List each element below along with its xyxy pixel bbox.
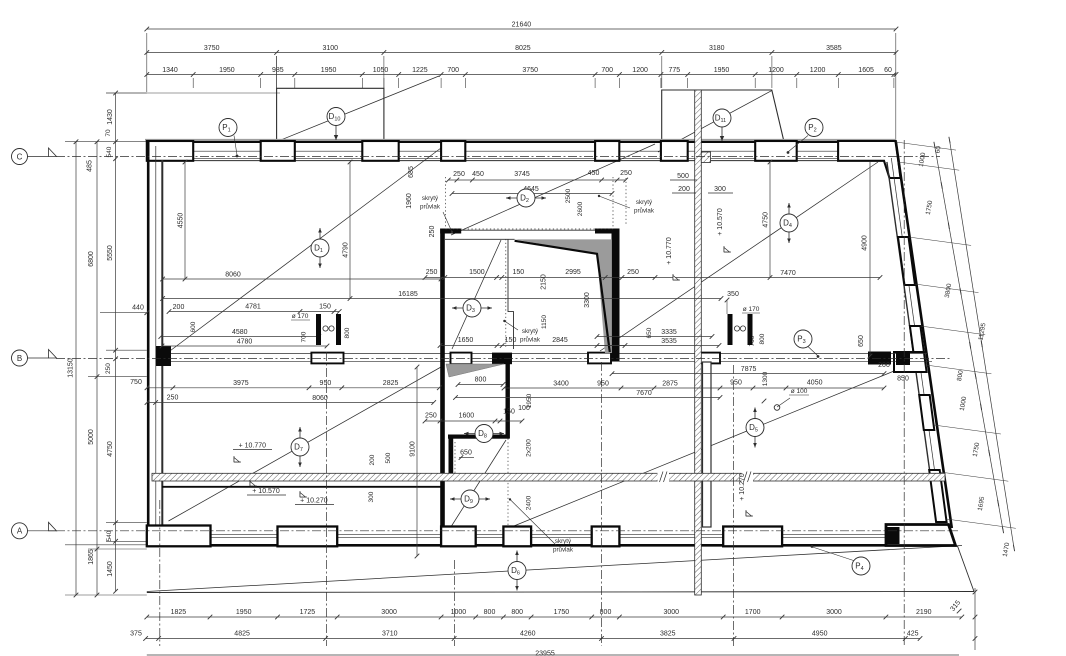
svg-text:5550: 5550 xyxy=(107,245,114,261)
svg-text:1950: 1950 xyxy=(714,67,730,74)
svg-text:skrytý: skrytý xyxy=(555,538,572,545)
svg-text:1150: 1150 xyxy=(541,315,548,329)
svg-text:500: 500 xyxy=(677,173,689,180)
svg-text:1200: 1200 xyxy=(810,67,826,74)
right wall B junction xyxy=(894,352,927,372)
right slant extension lines xyxy=(896,142,956,150)
svg-text:650: 650 xyxy=(646,327,653,338)
vertical dim 4790 xyxy=(349,162,351,299)
svg-text:60: 60 xyxy=(884,67,892,74)
axis B wall piers xyxy=(311,353,343,364)
dim row 250 1600 150 100 xyxy=(425,420,522,422)
dim 16185 xyxy=(163,298,721,300)
svg-text:průvlak: průvlak xyxy=(634,208,655,215)
wall right of strip xyxy=(703,362,712,527)
svg-text:700: 700 xyxy=(447,67,459,74)
diagonal room bottom-left D7 xyxy=(169,367,442,521)
svg-text:800: 800 xyxy=(511,609,523,616)
dim 4645 xyxy=(452,193,612,195)
stair shaft left wall xyxy=(440,229,445,528)
svg-text:375: 375 xyxy=(130,631,142,638)
bottom-right corner xyxy=(886,525,956,546)
beam line below hatch xyxy=(162,486,441,488)
svg-text:3000: 3000 xyxy=(381,609,397,616)
svg-text:4790: 4790 xyxy=(342,242,349,258)
axis B wall right junction xyxy=(896,353,910,366)
svg-text:1950: 1950 xyxy=(219,67,235,74)
dim 7470 xyxy=(622,277,880,279)
lower room left wall segment xyxy=(449,439,454,474)
right wall slanted inner xyxy=(887,162,937,520)
dim 250 8060 lower xyxy=(147,402,434,404)
svg-text:16185: 16185 xyxy=(398,291,418,298)
shaft dim row 250 1500 150 2995 250 xyxy=(425,277,655,279)
extension lines top xyxy=(146,33,148,92)
diagonal room bottom-right D5 xyxy=(509,358,926,528)
svg-text:+ 10.270: + 10.270 xyxy=(300,498,328,505)
svg-text:250: 250 xyxy=(627,269,639,276)
top wall grey cap xyxy=(145,139,896,141)
svg-text:+ 10.570: + 10.570 xyxy=(252,488,280,495)
svg-text:1650: 1650 xyxy=(458,337,474,344)
svg-text:775: 775 xyxy=(668,67,680,74)
top wall xyxy=(147,141,896,143)
svg-text:+ 10.270: + 10.270 xyxy=(739,473,746,501)
svg-text:700: 700 xyxy=(601,67,613,74)
diagonal shaft D2 xyxy=(451,144,655,235)
svg-text:1950: 1950 xyxy=(321,67,337,74)
svg-text:650: 650 xyxy=(460,450,472,457)
dim row 3400 950 2875 950 4050 xyxy=(504,387,884,389)
svg-text:200: 200 xyxy=(369,454,376,465)
bay window left xyxy=(277,88,384,141)
svg-text:ø 170: ø 170 xyxy=(292,313,309,320)
svg-text:2x200: 2x200 xyxy=(526,439,533,457)
svg-text:1200: 1200 xyxy=(768,67,784,74)
svg-text:450: 450 xyxy=(472,171,484,178)
site boundary bottom xyxy=(147,592,974,593)
axis circle A xyxy=(12,523,28,539)
svg-text:průvlak: průvlak xyxy=(553,547,574,554)
svg-text:650: 650 xyxy=(858,335,865,347)
stair edge thick line xyxy=(515,241,610,352)
svg-text:4780: 4780 xyxy=(237,338,253,345)
dimension row bottom 1 xyxy=(147,616,962,618)
svg-text:250: 250 xyxy=(429,226,436,238)
svg-text:+ 10.770: + 10.770 xyxy=(666,237,673,265)
axis flags xyxy=(28,156,49,158)
svg-text:A: A xyxy=(17,527,23,536)
svg-text:6800: 6800 xyxy=(88,251,95,267)
stair shaft right wall xyxy=(612,229,620,362)
stair shaft inner line xyxy=(508,239,514,349)
shaft dim row 250 450 3745 450 250 xyxy=(448,179,625,181)
room D8 bottom wall xyxy=(448,435,510,439)
right wall slanted outer xyxy=(896,142,952,528)
dimension row total 21640 xyxy=(147,28,896,30)
vertical dim 9100 xyxy=(416,367,418,556)
svg-text:2400: 2400 xyxy=(526,495,533,510)
marker D4 xyxy=(788,203,790,243)
top-right corner pier xyxy=(838,141,900,178)
left chain 13150 xyxy=(75,142,77,595)
bay window right xyxy=(662,90,784,142)
svg-text:450: 450 xyxy=(588,170,600,177)
svg-text:7670: 7670 xyxy=(636,390,652,397)
svg-text:485: 485 xyxy=(87,160,94,172)
svg-text:200: 200 xyxy=(678,186,690,193)
svg-text:4900: 4900 xyxy=(862,235,869,251)
svg-text:3975: 3975 xyxy=(233,380,249,387)
dimension row bottom 3 total xyxy=(147,654,959,656)
diagonal bay left D10 xyxy=(277,76,439,142)
svg-text:685: 685 xyxy=(408,166,415,178)
svg-text:1700: 1700 xyxy=(745,609,761,616)
diagonal room top-left D1 xyxy=(169,145,446,352)
svg-text:150: 150 xyxy=(503,409,515,416)
svg-text:7470: 7470 xyxy=(780,270,796,277)
right wall piers outlined xyxy=(910,326,924,352)
marker D1 xyxy=(319,228,321,268)
svg-text:1500: 1500 xyxy=(469,269,485,276)
svg-text:1750: 1750 xyxy=(554,609,570,616)
svg-text:2600: 2600 xyxy=(577,201,584,216)
svg-text:950: 950 xyxy=(320,380,332,387)
dim 200 4781 150 xyxy=(169,311,339,313)
svg-text:3710: 3710 xyxy=(382,631,398,638)
marker P1 xyxy=(219,119,237,137)
marker D2 xyxy=(506,197,546,199)
svg-text:800: 800 xyxy=(344,327,351,338)
svg-text:3000: 3000 xyxy=(664,609,680,616)
svg-text:540: 540 xyxy=(106,146,113,157)
room D9 dotted lines xyxy=(507,439,509,528)
svg-text:200: 200 xyxy=(878,362,890,369)
svg-text:4050: 4050 xyxy=(807,380,823,387)
dim 4580 xyxy=(161,336,319,338)
plumbing right xyxy=(728,314,733,345)
svg-text:5000: 5000 xyxy=(88,429,95,445)
svg-text:600: 600 xyxy=(190,321,197,332)
beam band breaks xyxy=(658,472,670,482)
svg-text:700: 700 xyxy=(301,331,308,342)
svg-text:4750: 4750 xyxy=(107,441,114,457)
svg-text:250: 250 xyxy=(453,171,465,178)
svg-text:skrytý: skrytý xyxy=(522,328,539,335)
svg-text:1450: 1450 xyxy=(107,561,114,577)
left chain 6800 5000 1865 xyxy=(96,142,98,595)
svg-text:250: 250 xyxy=(425,413,437,420)
svg-text:1960: 1960 xyxy=(406,193,413,209)
svg-text:skrytý: skrytý xyxy=(422,195,439,202)
svg-text:2150: 2150 xyxy=(541,274,548,290)
svg-text:1825: 1825 xyxy=(171,609,187,616)
axis B wall stubs xyxy=(451,353,472,365)
shaft dim row 1650 150 2845 xyxy=(440,345,625,347)
svg-text:950: 950 xyxy=(730,380,742,387)
svg-text:850: 850 xyxy=(897,376,909,383)
svg-text:250: 250 xyxy=(620,170,632,177)
svg-text:3100: 3100 xyxy=(323,45,339,52)
vertical dim 4900 right xyxy=(869,162,871,356)
left chain detail xyxy=(115,93,117,591)
svg-text:8060: 8060 xyxy=(312,395,328,402)
svg-text:7875: 7875 xyxy=(741,366,757,373)
dimension row 3 top xyxy=(147,74,896,76)
right slant dim chain inner xyxy=(935,145,1004,530)
dim 800 room D8 xyxy=(458,384,503,386)
svg-text:2825: 2825 xyxy=(383,380,399,387)
svg-text:1225: 1225 xyxy=(412,67,428,74)
dim 4780 xyxy=(162,345,327,347)
svg-text:3180: 3180 xyxy=(709,45,725,52)
svg-text:985: 985 xyxy=(272,67,284,74)
svg-text:21640: 21640 xyxy=(512,21,532,28)
diagonal stair D9 xyxy=(452,440,507,526)
svg-text:4825: 4825 xyxy=(234,631,250,638)
hatched beam band horizontal xyxy=(152,473,945,481)
marker D5 xyxy=(754,408,756,448)
svg-text:1605: 1605 xyxy=(858,67,874,74)
axis B wall xyxy=(162,352,928,354)
svg-text:4950: 4950 xyxy=(812,631,828,638)
dim 8060 room1 xyxy=(163,278,441,280)
boundary vertical dim right xyxy=(974,588,976,650)
svg-text:8060: 8060 xyxy=(225,271,241,278)
bottom wall piers xyxy=(147,526,211,547)
svg-text:70: 70 xyxy=(105,129,112,137)
marker D10 xyxy=(327,108,345,126)
marker D3 xyxy=(452,307,492,309)
left wall xyxy=(147,141,150,546)
svg-text:950: 950 xyxy=(597,380,609,387)
svg-text:2500: 2500 xyxy=(565,188,572,203)
svg-text:1430: 1430 xyxy=(107,109,114,125)
top wall piers xyxy=(147,141,193,161)
axis verticals xyxy=(159,500,161,646)
axis B xyxy=(56,358,952,360)
svg-text:300: 300 xyxy=(368,491,375,502)
diagonal shaft D3 xyxy=(452,240,501,349)
svg-text:4550: 4550 xyxy=(177,213,184,229)
svg-text:skrytý: skrytý xyxy=(636,199,653,206)
marker P3 xyxy=(794,330,812,348)
marker D8 xyxy=(464,433,504,435)
svg-text:1200: 1200 xyxy=(632,67,648,74)
svg-text:2995: 2995 xyxy=(565,269,581,276)
svg-text:200: 200 xyxy=(173,304,185,311)
stair shaft top edge xyxy=(445,229,612,231)
right wall pier 2 outlined xyxy=(898,237,915,285)
svg-text:ø 170: ø 170 xyxy=(743,306,760,313)
svg-text:500: 500 xyxy=(385,452,392,463)
marker P4 xyxy=(852,557,870,575)
plumbing left xyxy=(316,314,321,345)
svg-text:150: 150 xyxy=(319,304,331,311)
dim 7670 xyxy=(456,397,721,399)
svg-text:350: 350 xyxy=(727,291,739,298)
svg-text:425: 425 xyxy=(907,631,919,638)
svg-text:300: 300 xyxy=(714,186,726,193)
svg-text:+ 10.770: + 10.770 xyxy=(239,443,267,450)
svg-text:1050: 1050 xyxy=(373,67,389,74)
svg-text:1000: 1000 xyxy=(451,609,467,616)
svg-text:3825: 3825 xyxy=(660,631,676,638)
dim 7875 xyxy=(612,373,884,375)
room D8 grey wedge xyxy=(446,364,504,377)
svg-text:3535: 3535 xyxy=(661,338,677,345)
svg-text:3750: 3750 xyxy=(204,45,220,52)
svg-text:250: 250 xyxy=(167,395,179,402)
svg-text:3000: 3000 xyxy=(826,609,842,616)
dimension row bottom 2 xyxy=(146,638,920,640)
dimension row 2 top xyxy=(147,52,896,54)
svg-text:průvlak: průvlak xyxy=(520,337,541,344)
dim row 750 3975 950 2825 xyxy=(147,387,439,389)
svg-text:540: 540 xyxy=(106,530,113,541)
marker D9 xyxy=(450,498,490,500)
svg-text:1340: 1340 xyxy=(162,67,178,74)
marker D7 xyxy=(299,427,301,467)
bottom wall xyxy=(162,533,890,535)
marker D11 xyxy=(713,109,731,127)
svg-text:4750: 4750 xyxy=(762,212,769,228)
svg-text:8025: 8025 xyxy=(515,45,531,52)
svg-text:2190: 2190 xyxy=(916,609,932,616)
axis circle B xyxy=(12,350,28,366)
axis A xyxy=(56,530,958,532)
hidden beam dotted outline xyxy=(445,177,447,229)
svg-text:+ 10.570: + 10.570 xyxy=(717,208,724,236)
svg-text:3335: 3335 xyxy=(661,329,677,336)
dim 3335 3535 xyxy=(597,336,712,338)
site boundary right slant xyxy=(958,546,975,592)
svg-text:9100: 9100 xyxy=(409,441,416,457)
svg-text:150: 150 xyxy=(505,337,517,344)
svg-text:150: 150 xyxy=(512,269,524,276)
svg-text:250: 250 xyxy=(105,363,112,374)
stair shaft grey landing xyxy=(515,239,612,353)
svg-text:3585: 3585 xyxy=(826,45,842,52)
right slant dim chain outer xyxy=(950,140,1015,548)
svg-text:C: C xyxy=(17,152,23,161)
svg-text:3750: 3750 xyxy=(522,67,538,74)
svg-text:750: 750 xyxy=(130,379,142,386)
svg-text:průvlak: průvlak xyxy=(420,204,441,211)
diagonal room top-right D4 xyxy=(600,162,878,351)
svg-text:800: 800 xyxy=(759,333,766,344)
diagonal bay right D11 xyxy=(658,90,772,152)
svg-text:800: 800 xyxy=(475,377,487,384)
svg-text:1600: 1600 xyxy=(459,413,475,420)
site diagonal xyxy=(147,546,962,592)
vertical dim 4750 right xyxy=(769,162,771,278)
svg-text:3300: 3300 xyxy=(584,292,591,308)
svg-text:4781: 4781 xyxy=(245,304,261,311)
vertical dim 4550 xyxy=(184,162,186,279)
svg-text:2845: 2845 xyxy=(552,337,568,344)
svg-text:2875: 2875 xyxy=(662,380,678,387)
svg-text:250: 250 xyxy=(426,269,438,276)
hatched column strip vertical xyxy=(695,90,702,595)
svg-text:1950: 1950 xyxy=(526,393,533,408)
svg-text:800: 800 xyxy=(484,609,496,616)
svg-text:B: B xyxy=(17,354,22,363)
svg-text:ø 100: ø 100 xyxy=(791,388,808,395)
axis circle C xyxy=(12,149,28,165)
marker P2 xyxy=(805,119,823,137)
svg-text:440: 440 xyxy=(132,305,144,312)
svg-text:1950: 1950 xyxy=(236,609,252,616)
room D8 right wall xyxy=(506,363,510,439)
svg-text:1865: 1865 xyxy=(88,549,95,565)
svg-text:4580: 4580 xyxy=(232,329,248,336)
dim 650 D8 xyxy=(459,457,474,459)
left extension lines xyxy=(106,92,147,94)
svg-text:13150: 13150 xyxy=(67,358,74,378)
svg-text:3745: 3745 xyxy=(514,171,530,178)
svg-text:4260: 4260 xyxy=(520,631,536,638)
svg-text:3400: 3400 xyxy=(553,380,569,387)
svg-text:23955: 23955 xyxy=(535,651,555,656)
axis C xyxy=(56,156,940,158)
marker D6 xyxy=(516,551,518,591)
svg-text:1725: 1725 xyxy=(300,609,316,616)
